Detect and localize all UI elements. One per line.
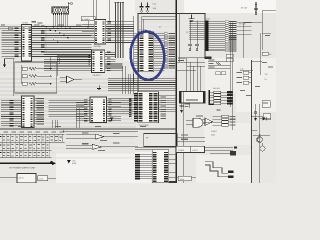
thick feed line with arrow (0, 162, 56, 166)
wire left box vertical (12, 59, 14, 97)
wire bus into U109 (135, 154, 152, 180)
wire vertical x183.8 lower (183, 92, 185, 183)
op-amp comparator right (197, 118, 213, 126)
capacitor C230 right column (254, 104, 257, 121)
wire bus into U107 (1, 100, 22, 126)
IC U108 (90, 97, 107, 123)
component table bottom left (0, 132, 65, 164)
svg-text:PWR: PWR (72, 162, 77, 165)
capacitor C221 with ground (180, 103, 190, 113)
caption TV tuner unit (9, 167, 36, 170)
ground arrow left (3, 59, 15, 68)
svg-text:C1: C1 (186, 31, 188, 34)
svg-text:AGC: AGC (211, 134, 216, 137)
voltage reg box right (252, 61, 271, 107)
svg-text:TP2: TP2 (265, 73, 268, 76)
wire AGC row (240, 68, 253, 71)
wire left vertical of U105 (133, 16, 135, 85)
svg-text:RF AGC: RF AGC (239, 23, 247, 26)
wire rail third line (63, 130, 138, 132)
IC U104 (206, 17, 252, 51)
op-amp IC110a (60, 76, 82, 83)
crystal X201 box (180, 92, 206, 104)
paper background (0, 0, 276, 183)
wire U105 left stubs (134, 34, 139, 71)
antenna input part (254, 2, 258, 15)
wire fan right of shield (176, 57, 205, 92)
resistor stack RA1 (208, 87, 232, 105)
svg-text:B+ 12V: B+ 12V (241, 7, 248, 10)
net name labels top left (1, 21, 43, 30)
wire U109 right stubs (169, 155, 177, 173)
wire rows U107 to U108 (49, 100, 85, 128)
net labels on rails (18, 25, 146, 128)
capacitor C140 (97, 85, 101, 90)
stacked resistors right of comparator (213, 115, 236, 126)
junction dots on bus (45, 26, 88, 43)
IC U106 (134, 92, 159, 127)
pin number boxes right of U105 (159, 26, 175, 69)
misc net labels right column (240, 62, 273, 102)
wire label boxes right of U101 (41, 26, 46, 53)
op-amp IC111b (66, 143, 138, 151)
arrow to supply (68, 2, 72, 7)
shield box boundary (138, 14, 205, 93)
transistor Q201 (257, 137, 263, 143)
IC U105 highlighted (139, 28, 154, 71)
box tuner right edge (262, 11, 276, 50)
svg-text:4.19MHz: 4.19MHz (82, 18, 90, 21)
svg-text:VR20: VR20 (180, 178, 185, 181)
wire drops from top edge (94, 0, 110, 22)
label 74LS04 (94, 45, 102, 48)
svg-text:CN5: CN5 (206, 17, 210, 20)
pin labels right of U107 (34, 98, 44, 124)
vertical label 74HC4053 (129, 99, 132, 118)
IC U101 (22, 22, 32, 61)
wire U103 right stubs (105, 52, 123, 72)
svg-text:R11-R15: R11-R15 (213, 87, 220, 90)
svg-text:IC101: IC101 (22, 22, 28, 25)
svg-text:3.15A: 3.15A (39, 178, 44, 181)
svg-text:74LS373: 74LS373 (93, 74, 102, 77)
connector CN101 (hatched) (52, 7, 69, 13)
capacitor C120 C121 (140, 3, 157, 13)
svg-text:CN202: CN202 (178, 149, 184, 152)
wire stubs left of U104 (189, 22, 206, 40)
label text (211, 130, 218, 137)
svg-text:D.OUT: D.OUT (211, 130, 218, 133)
IC U109 (152, 150, 168, 183)
value boxes below U104 (178, 54, 233, 62)
wire rows with resistors right mid (237, 71, 268, 84)
box B+ reg (251, 114, 271, 120)
thick bus line vertical (175, 0, 177, 183)
crystal X101 label box (81, 17, 95, 27)
IC U107 (22, 96, 35, 128)
resistor R201 (261, 33, 272, 75)
svg-text:1.2k: 1.2k (240, 68, 243, 71)
oscillator section box (15, 62, 57, 93)
svg-text:A.OUT: A.OUT (192, 149, 199, 152)
wire U108 left stubs (76, 99, 90, 121)
IC U102 (94, 20, 105, 45)
wire bus below ellipse (108, 79, 176, 91)
label RF unit (239, 7, 248, 26)
box IF block (244, 22, 262, 58)
wire long verticals right (230, 23, 259, 184)
diode D105 (110, 118, 113, 121)
wire inner vertical (179, 14, 181, 63)
wire U102 left stubs (82, 24, 94, 42)
wire rows to output jack (205, 146, 252, 155)
wire rows above stack (208, 60, 230, 75)
audio out box (169, 176, 196, 183)
oscillator parts (21, 56, 57, 85)
wire U105 right stubs (154, 34, 165, 71)
wire top rails (0, 27, 134, 29)
servo block box (144, 134, 178, 147)
wire verticals clock lines (114, 2, 124, 58)
wire rows right of servo block (177, 135, 205, 142)
wire staircase lower right (205, 162, 228, 174)
svg-text:TO POWER SUPPLY UNIT: TO POWER SUPPLY UNIT (9, 167, 36, 170)
wire top rows (135, 147, 205, 149)
wire mark (217, 109, 221, 110)
wire bus address lines left edge (2, 28, 22, 57)
LED D110 (67, 159, 77, 165)
pin labels right of U106 (161, 95, 167, 119)
wire rails below U103 (57, 55, 91, 66)
wire data bus U101 to U102/U103 (32, 26, 92, 56)
wire U108 right stubs (107, 99, 122, 121)
svg-text:R2: R2 (269, 53, 271, 56)
wire AFT (262, 33, 271, 36)
svg-text:CXD1125Q: CXD1125Q (139, 124, 149, 127)
transistor Q202 (260, 143, 265, 151)
terminal box bottom left (0, 174, 56, 184)
diode D201 (260, 117, 271, 121)
wire staircase lower right 2 (205, 165, 228, 177)
wire verticals into lower bus (105, 65, 133, 94)
IC U103 (91, 50, 104, 77)
wire U103 left stubs (44, 52, 91, 70)
svg-text:74LS04: 74LS04 (94, 45, 102, 48)
connector CN101 pins (53, 13, 68, 26)
wire U102 right stubs (106, 21, 134, 43)
wire U106 right (159, 96, 177, 112)
svg-text:AC IN: AC IN (19, 176, 25, 179)
connector blocks lower right (228, 171, 234, 178)
wire U106 left (108, 98, 134, 114)
ground symbol inside shield (189, 15, 195, 22)
wire segments inside shield top (142, 17, 177, 32)
logic gate IC112 (186, 116, 212, 128)
highlight ellipse annotation (129, 30, 167, 81)
connector box bottom right of center (176, 146, 204, 152)
power rail double line (0, 128, 176, 130)
wire rows right mid2 (252, 131, 271, 136)
capacitor C130 C131 with ground (186, 21, 199, 51)
op-amp IC111a (66, 133, 138, 141)
